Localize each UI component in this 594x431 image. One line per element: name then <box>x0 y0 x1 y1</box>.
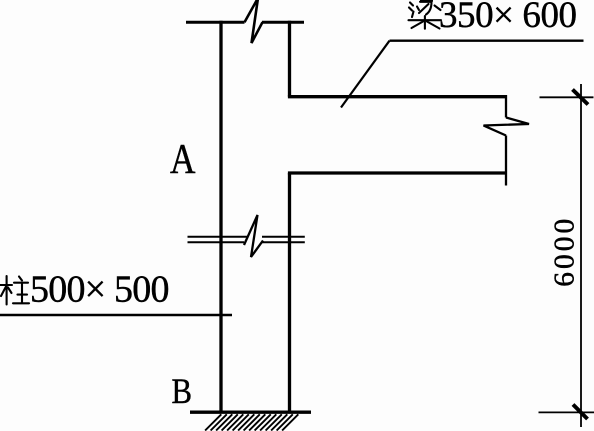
svg-text:350× 600: 350× 600 <box>439 0 577 36</box>
leader underline for column label <box>0 314 232 316</box>
column right edge line upper segment <box>288 21 291 97</box>
label column: hanzi Zhu drawn strokes <box>0 276 29 305</box>
svg-text:B: B <box>172 371 193 411</box>
label beam: hanzi Liang drawn strokes <box>409 0 442 29</box>
column top cap line (broken) <box>186 21 304 24</box>
dimension tick top <box>573 90 589 105</box>
leader underline for beam label <box>390 40 584 42</box>
break symbol at column middle <box>244 215 263 257</box>
ground hatching <box>205 414 298 430</box>
ground line <box>190 411 311 414</box>
svg-text:6000: 6000 <box>549 216 581 287</box>
svg-text:A: A <box>170 137 196 183</box>
column left edge line <box>219 21 222 412</box>
beam bottom edge line <box>288 171 506 174</box>
dimension extension line top <box>540 96 594 98</box>
break symbol at column top <box>245 0 263 43</box>
dimension tick bottom <box>573 405 588 420</box>
beam top edge line <box>288 95 506 98</box>
dimension line 6000 vertical <box>580 84 582 427</box>
dimension extension line bottom <box>539 411 594 413</box>
leader diagonal for beam label <box>341 41 390 108</box>
svg-text:500× 500: 500× 500 <box>30 269 170 311</box>
column mid break double lines <box>188 237 305 243</box>
break symbol at beam right end <box>484 95 530 186</box>
column right edge line lower segment <box>288 173 291 412</box>
